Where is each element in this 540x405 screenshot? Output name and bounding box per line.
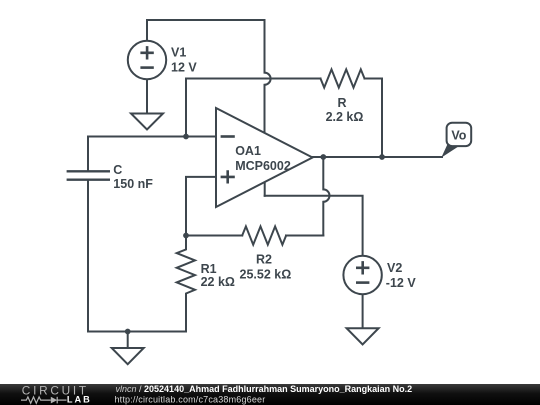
node: R1/R2/+in junction: [183, 233, 189, 239]
wire ground stub (main): [127, 332, 129, 348]
voltage source V2: [343, 256, 416, 294]
svg-text:22 kΩ: 22 kΩ: [201, 275, 235, 289]
node: R drop junction: [379, 154, 385, 160]
svg-text:OA1: OA1: [235, 144, 261, 158]
wire feedback node riser: [185, 79, 187, 137]
voltage source V1: [128, 41, 198, 79]
svg-text:2.2 kΩ: 2.2 kΩ: [326, 110, 364, 124]
wire R2 right lead: [286, 235, 323, 237]
svg-text:http://circuitlab.com/c7ca38m6: http://circuitlab.com/c7ca38m6g6eer: [115, 394, 266, 404]
op-amp OA1: [216, 108, 313, 207]
ground (main): [112, 348, 144, 364]
wire hop over feedback wire: [265, 73, 271, 85]
wire output to R2 drop: [322, 157, 324, 189]
wire V1 top rail to op-amp V+ pin: [147, 20, 265, 73]
svg-text:25.52 kΩ: 25.52 kΩ: [240, 267, 292, 281]
capacitor C plates: [68, 171, 109, 179]
resistor R1: [177, 236, 195, 332]
wire supply to V2: [265, 196, 363, 256]
capacitor C top lead: [87, 137, 89, 172]
wire op-amp V- pin: [264, 181, 266, 196]
wire feedback to R: [186, 78, 321, 80]
ground (V2): [347, 328, 379, 344]
footer bar: [0, 384, 540, 405]
svg-text:-12 V: -12 V: [386, 276, 417, 290]
ground (V1): [131, 79, 163, 129]
wire op-amp V+ pin: [264, 85, 266, 133]
resistor R: [321, 69, 365, 87]
resistor R2: [242, 226, 286, 244]
logo squiggle (resistor + diode): [21, 397, 67, 404]
svg-text:V1: V1: [171, 45, 186, 59]
svg-text:R: R: [337, 96, 346, 110]
wire inverting input: [88, 136, 216, 138]
svg-text:MCP6002: MCP6002: [235, 159, 291, 173]
wire output: [313, 156, 443, 158]
capacitor C bottom lead: [87, 180, 89, 332]
wire V2 to ground: [362, 294, 364, 328]
wire R2 left lead: [186, 235, 242, 237]
wire noninverting input: [186, 177, 216, 236]
node: output junction: [320, 154, 326, 160]
svg-text:C: C: [113, 163, 122, 177]
svg-text:R1: R1: [201, 262, 217, 276]
flag Vo: [441, 123, 471, 158]
svg-text:V2: V2: [387, 261, 402, 275]
wire R to output node: [365, 79, 383, 158]
node: feedback junction: [183, 134, 189, 140]
svg-text:R2: R2: [256, 252, 272, 266]
svg-text:150 nF: 150 nF: [113, 177, 153, 191]
wire bottom rail: [88, 331, 186, 333]
wire hop over supply wire: [323, 189, 329, 201]
svg-text:LAB: LAB: [67, 395, 92, 405]
node: ground junction: [125, 329, 131, 335]
svg-text:12 V: 12 V: [171, 61, 197, 75]
svg-text:Vo: Vo: [451, 129, 466, 143]
svg-text:vlncn / 20524140_Ahmad Fadhlur: vlncn / 20524140_Ahmad Fadhlurrahman Sum…: [116, 384, 413, 394]
wire output drop lower: [322, 202, 324, 236]
